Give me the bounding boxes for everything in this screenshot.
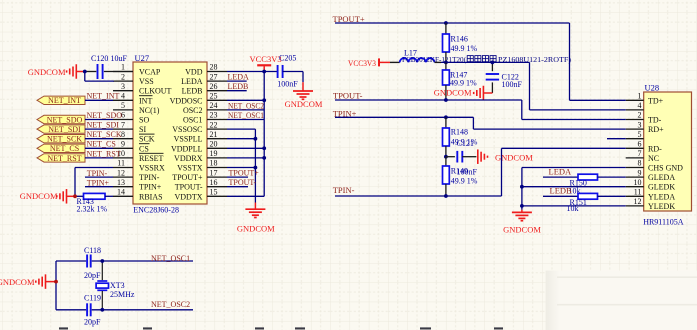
svg-text:NET_OSC2: NET_OSC2 — [151, 300, 190, 309]
svg-text:22: 22 — [210, 120, 218, 129]
svg-text:14: 14 — [117, 188, 125, 197]
svg-text:49.9 1%: 49.9 1% — [451, 177, 478, 186]
svg-text:VSS: VSS — [139, 77, 154, 86]
svg-text:19: 19 — [210, 149, 218, 158]
svg-text:CLKOUT: CLKOUT — [139, 87, 172, 96]
svg-text:12: 12 — [117, 168, 125, 177]
svg-text:C118: C118 — [84, 246, 101, 255]
svg-text:VSSPLL: VSSPLL — [174, 135, 203, 144]
svg-text:GNDCOM: GNDCOM — [28, 67, 66, 77]
svg-text:GNDCOM: GNDCOM — [237, 224, 275, 234]
svg-text:R148: R148 — [451, 128, 468, 137]
svg-text:TPOUT-: TPOUT- — [175, 183, 203, 192]
svg-text:RD-: RD- — [648, 144, 662, 153]
svg-text:U27: U27 — [135, 53, 150, 63]
svg-text:100nF: 100nF — [502, 80, 523, 89]
svg-text:NET_CS: NET_CS — [87, 140, 116, 149]
svg-text:VSSRX: VSSRX — [139, 164, 165, 173]
svg-text:NET_SDO: NET_SDO — [87, 111, 123, 120]
svg-text:C119: C119 — [84, 294, 101, 303]
svg-text:NET_OSC1: NET_OSC1 — [228, 111, 264, 120]
svg-text:NET_OSC2: NET_OSC2 — [228, 102, 264, 111]
svg-text:49.9 1%: 49.9 1% — [451, 44, 478, 53]
svg-text:GNDCOM: GNDCOM — [20, 191, 58, 201]
svg-text:3: 3 — [121, 82, 125, 91]
svg-text:LEDA: LEDA — [181, 77, 203, 86]
svg-text:NET_CS: NET_CS — [50, 144, 79, 153]
svg-text:20: 20 — [210, 140, 218, 149]
svg-text:26: 26 — [210, 82, 218, 91]
svg-text:21: 21 — [210, 130, 218, 139]
svg-text:VSSTX: VSSTX — [177, 164, 203, 173]
svg-text:NET_OSC1: NET_OSC1 — [151, 254, 190, 263]
svg-text:TPIN+: TPIN+ — [87, 179, 110, 188]
svg-text:11: 11 — [634, 188, 642, 197]
svg-text:27: 27 — [210, 72, 218, 81]
svg-text:YLEDK: YLEDK — [648, 202, 675, 211]
svg-text:LEDB: LEDB — [550, 186, 573, 196]
svg-text:RBIAS: RBIAS — [139, 192, 163, 201]
svg-text:GNDCOM: GNDCOM — [285, 99, 323, 109]
svg-text:ENC28J60-28: ENC28J60-28 — [133, 206, 179, 215]
svg-text:11: 11 — [117, 159, 125, 168]
svg-text:25MHz: 25MHz — [110, 290, 135, 299]
svg-text:OSC1: OSC1 — [183, 116, 203, 125]
svg-text:3: 3 — [638, 120, 642, 129]
svg-text:GNDCOM: GNDCOM — [495, 152, 533, 162]
svg-text:CHS GND: CHS GND — [648, 164, 683, 173]
svg-text:10: 10 — [634, 178, 642, 187]
svg-text:1: 1 — [121, 63, 125, 72]
svg-text:TPIN-: TPIN- — [139, 173, 160, 182]
svg-text:RESET: RESET — [139, 154, 164, 163]
svg-text:10uF: 10uF — [111, 54, 128, 63]
svg-text:SI: SI — [139, 125, 146, 134]
svg-text:20pF: 20pF — [84, 271, 101, 280]
svg-text:TPOUT+: TPOUT+ — [229, 169, 260, 178]
svg-text:NET_SDO: NET_SDO — [47, 115, 83, 124]
svg-text:12: 12 — [634, 197, 642, 206]
svg-text:C121: C121 — [457, 139, 474, 148]
svg-text:GLEDA: GLEDA — [648, 173, 675, 182]
svg-text:LEDB: LEDB — [182, 87, 203, 96]
svg-text:VCC3V3: VCC3V3 — [250, 54, 282, 64]
svg-text:24: 24 — [210, 101, 218, 110]
svg-text:23: 23 — [210, 111, 218, 120]
svg-text:4: 4 — [638, 101, 642, 110]
svg-text:2: 2 — [638, 111, 642, 120]
svg-text:25: 25 — [210, 92, 218, 101]
svg-text:17: 17 — [210, 168, 218, 177]
svg-text:VDD: VDD — [185, 68, 203, 77]
svg-text:GNDCOM: GNDCOM — [0, 277, 35, 287]
svg-text:15: 15 — [210, 188, 218, 197]
svg-text:NET_SCK: NET_SCK — [87, 130, 122, 139]
svg-text:49.9 1%: 49.9 1% — [450, 79, 477, 88]
svg-text:NC: NC — [648, 154, 659, 163]
svg-text:NET_RST: NET_RST — [47, 154, 81, 163]
svg-text:TD-: TD- — [648, 116, 662, 125]
svg-text:LEDB: LEDB — [228, 82, 249, 91]
svg-text:YLEDA: YLEDA — [648, 192, 675, 201]
svg-text:LEDA: LEDA — [228, 73, 250, 82]
svg-text:100nF: 100nF — [277, 80, 298, 89]
svg-text:9: 9 — [638, 168, 642, 177]
svg-text:NET_INT: NET_INT — [87, 92, 120, 101]
svg-text:RD+: RD+ — [648, 125, 664, 134]
svg-text:NET_SDI: NET_SDI — [48, 125, 81, 134]
svg-text:U28: U28 — [645, 83, 660, 93]
svg-text:SCK: SCK — [139, 135, 155, 144]
svg-text:20pF: 20pF — [84, 318, 101, 327]
svg-text:XT3: XT3 — [110, 281, 125, 290]
svg-text:16: 16 — [210, 178, 218, 187]
svg-text:NET_RST: NET_RST — [87, 149, 121, 158]
svg-text:18: 18 — [210, 159, 218, 168]
svg-text:1: 1 — [638, 92, 642, 101]
svg-text:GNDCOM: GNDCOM — [434, 87, 472, 97]
svg-text:LEDA: LEDA — [549, 167, 573, 177]
svg-text:GLEDK: GLEDK — [648, 183, 675, 192]
svg-text:VDDOSC: VDDOSC — [170, 96, 203, 105]
svg-text:SO: SO — [139, 116, 149, 125]
svg-text:6: 6 — [638, 140, 642, 149]
svg-text:13: 13 — [117, 178, 125, 187]
svg-text:CS: CS — [139, 144, 149, 153]
svg-text:TPIN-: TPIN- — [87, 169, 108, 178]
svg-text:TD+: TD+ — [648, 96, 664, 105]
svg-text:NET_SCK: NET_SCK — [47, 135, 82, 144]
svg-text:VDDRX: VDDRX — [174, 154, 203, 163]
svg-text:28: 28 — [210, 63, 218, 72]
svg-text:7: 7 — [638, 149, 642, 158]
svg-text:GNDCOM: GNDCOM — [503, 224, 541, 234]
svg-text:TPOUT+: TPOUT+ — [172, 173, 203, 182]
svg-text:5: 5 — [121, 101, 125, 110]
svg-text:TPIN-: TPIN- — [333, 185, 355, 195]
svg-text:8: 8 — [638, 159, 642, 168]
svg-text:TPOUT-: TPOUT- — [333, 90, 363, 100]
svg-text:VCC3V3: VCC3V3 — [348, 58, 376, 68]
svg-text:100nF: 100nF — [457, 168, 478, 177]
svg-text:R146: R146 — [451, 35, 468, 44]
svg-text:VDDPLL: VDDPLL — [171, 144, 203, 153]
svg-text:HR911105A: HR911105A — [643, 217, 684, 226]
svg-text:2.32k 1%: 2.32k 1% — [77, 205, 108, 214]
svg-text:TPIN+: TPIN+ — [139, 183, 162, 192]
svg-text:OSC2: OSC2 — [183, 106, 203, 115]
svg-text:5: 5 — [638, 130, 642, 139]
svg-text:TPOUT-: TPOUT- — [229, 178, 257, 187]
svg-text:10k: 10k — [567, 204, 579, 213]
svg-text:INT: INT — [139, 96, 152, 105]
svg-text:2: 2 — [121, 72, 125, 81]
svg-text:C120: C120 — [91, 54, 108, 63]
svg-text:9: 9 — [121, 140, 125, 149]
svg-text:VCAP: VCAP — [139, 68, 161, 77]
svg-text:VDDTX: VDDTX — [175, 192, 203, 201]
svg-text:4: 4 — [121, 92, 125, 101]
svg-text:NET_SDI: NET_SDI — [87, 121, 120, 130]
svg-text:VSSOSC: VSSOSC — [172, 125, 202, 134]
svg-text:NET_INT: NET_INT — [48, 96, 81, 105]
svg-text:NC(1): NC(1) — [139, 106, 160, 115]
svg-text:C205: C205 — [279, 54, 296, 63]
svg-text:7: 7 — [121, 120, 125, 129]
